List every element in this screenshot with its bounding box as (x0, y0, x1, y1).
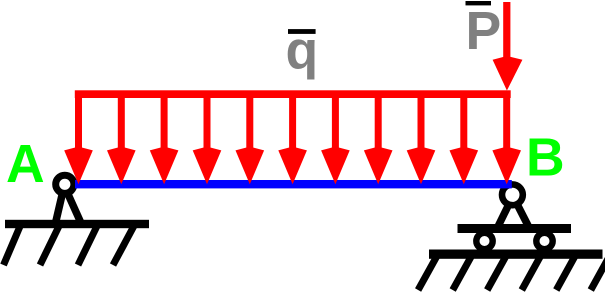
svg-text:A: A (6, 135, 45, 194)
support B hatch 1 (418, 253, 439, 290)
support A pin circle (56, 175, 74, 193)
load arrow 1 (64, 93, 93, 184)
support B plate (458, 224, 572, 233)
support B pin circle (502, 184, 523, 205)
support A hatch 3 (78, 224, 98, 265)
beam AB (75, 180, 512, 188)
load arrow 4 (193, 93, 222, 184)
support A hatch 2 (40, 224, 60, 265)
support B hatch 5 (556, 253, 576, 290)
support B left leg (498, 203, 510, 227)
support B hatch 2 (453, 253, 473, 290)
support A ground bar (5, 220, 149, 228)
load arrow 6 (278, 93, 307, 184)
support B hatch 6 (591, 253, 605, 290)
svg-text:P: P (466, 2, 502, 61)
support B hatch 3 (487, 253, 508, 290)
load arrow 11 (492, 93, 521, 184)
load arrow 5 (236, 93, 265, 184)
support A hatch 4 (113, 224, 135, 265)
support B ground bar (429, 250, 603, 259)
support B hatch 4 (522, 253, 542, 290)
support B roller left (476, 233, 492, 249)
support A left leg (56, 193, 63, 223)
support B right leg (517, 203, 529, 227)
support B roller right (536, 233, 552, 249)
load arrow 7 (321, 93, 350, 184)
load arrow 3 (150, 93, 179, 184)
load arrow 2 (107, 93, 136, 184)
support A right leg (68, 193, 82, 223)
overbar of P (black) (466, 1, 492, 5)
load arrow 8 (364, 93, 393, 184)
svg-text:B: B (526, 129, 565, 188)
force P arrow (493, 2, 523, 91)
support A hatch 1 (4, 224, 22, 265)
load arrow 10 (450, 93, 479, 184)
load arrow 9 (407, 93, 436, 184)
overbar of q (black) (288, 29, 316, 34)
distributed load top line q (75, 90, 511, 98)
